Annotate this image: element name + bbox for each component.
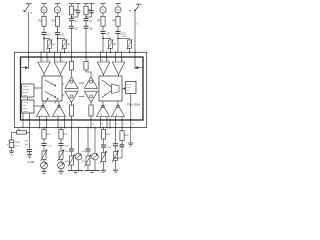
capacitor C4 [69,19,78,23]
svg-text:+: + [57,64,58,66]
op-amp A6 [84,77,97,89]
wire pin-bus x58 [57,120,59,128]
wire M4-bar [94,160,96,171]
switch S1 [22,4,32,15]
wire group1-pin [71,28,73,57]
label C11 [25,141,30,146]
node branch wire 4 [118,39,130,41]
svg-text:8: 8 [72,124,73,126]
wire C9-node [102,33,104,39]
svg-text:3: 3 [30,124,31,126]
svg-text:x: x [51,96,52,98]
resistor R16 [120,128,129,141]
pin bottom x107 [106,119,108,121]
wire switch S2 to rail [134,11,136,53]
svg-text:dc vol: dc vol [127,84,133,86]
pin bottom x130.75 [130,119,132,121]
wire R1-C1 [43,26,45,32]
wire switch S1 to pin 2 [28,12,30,57]
resistor R5 [69,6,77,15]
wire pin-bus x115.5 [115,120,117,128]
svg-text:logic: logic [23,105,27,107]
pin number top 8 [122,60,123,62]
supply bar R6 [83,4,88,6]
ground bus wire [14,127,146,129]
pin 2 arrow marker [21,67,28,69]
svg-text:17: 17 [123,124,125,126]
pin top x54.5 [54,57,56,59]
wire M1-A5 [62,83,65,85]
junction bus x46.5 [46,127,48,129]
wire V1-R1 [43,13,45,17]
capacitor C8 [84,26,93,30]
wire pin-bus x100.5 [100,120,102,128]
wire V4-R9 [117,13,119,17]
stub rail-pin x47 [46,52,47,57]
pin bottom x122 [121,119,123,121]
wire pin-gnd right [130,127,132,143]
wire C19-join [115,147,122,159]
wire C4-C5 [71,21,73,26]
pin number bottom 18 [132,124,134,126]
pin top x41 [40,57,42,59]
wire bus-C17 [115,127,117,144]
part number label [127,103,141,107]
meter M1 [41,160,48,169]
junction rail x71.5 [71,52,72,53]
pin number bottom 4 [40,124,41,126]
capacitor C19 [120,141,125,147]
wire R13-bar [71,165,73,171]
supply bar R5 [69,4,74,6]
wire pin-bus x122 [121,120,123,128]
pin top x121.5 [121,57,123,59]
svg-text:18: 18 [132,124,134,126]
svg-text:x: x [51,84,52,86]
pin bottom x39.5 [39,119,41,121]
wire C10-node [117,33,119,39]
control box B2 [22,100,35,113]
stub rail-pin x121.5 [121,52,122,57]
control box B1 [22,84,35,97]
pin number top 9 [116,60,117,62]
svg-text:TDA 1524: TDA 1524 [127,103,141,107]
junction rail x44 [43,52,44,53]
pot arrow P2 [54,98,58,103]
wire M2 down [60,169,62,172]
wire node-rail V3 [102,39,104,53]
pin bottom x71.5 [71,119,73,121]
capacitor C11 [27,150,32,152]
ground bar G4 [85,171,100,173]
pin bottom x29.5 [29,119,31,121]
wire bus-C11 [29,128,31,150]
pin number bottom 14 [101,124,103,126]
wire B3-pin gnd [130,94,132,121]
resistor R1 [38,16,46,26]
end bar E1 [41,171,46,173]
wire C15-R14 [87,151,89,156]
pin number top 17 [42,60,44,62]
end bar E3 [101,170,106,172]
supply bar V4 [115,4,120,6]
wire R7-C9 [102,26,104,31]
pin number bottom 16 [116,124,118,126]
adjustable resistor R21 [112,146,118,162]
wire node-rail V4 [117,39,119,53]
wire group2-pin [85,28,87,57]
svg-text:bass &: bass & [23,92,30,94]
pin number bottom 17 [123,124,125,126]
junction bus x58 [57,127,59,129]
pin number bottom 15 [108,124,110,126]
ground G2 [9,151,14,154]
node branch wire 3 [103,39,111,41]
rail left drop wire [13,52,15,127]
svg-text:14: 14 [101,124,103,126]
wire C3 join [71,13,78,18]
wire pin-bus x46.5 [46,120,48,128]
svg-text:2: 2 [29,60,30,62]
op-amp A8 [84,91,97,102]
pin top x71.5 [71,57,73,59]
rail wire top [14,51,147,53]
svg-text:5: 5 [47,124,48,126]
pin number top 10 [107,60,109,62]
svg-text:balance: balance [23,89,30,91]
wire A8-M2 [98,94,99,96]
svg-text:volume: volume [23,86,29,88]
capacitor C5 [69,26,78,30]
pin bottom x100.5 [100,119,102,121]
pin number top 12 [87,60,89,62]
switch S2 [129,4,141,25]
wire R4-rail [64,48,66,53]
capacitor C17 [113,144,124,148]
pin number top 2 [29,60,30,62]
svg-text:treble: treble [23,94,28,97]
wire R3-C2 [57,26,59,32]
junction rail x57.5 [57,52,58,53]
capacitor C3 [76,11,81,13]
resistor R13 [65,155,75,167]
junction bus x39.5 [39,127,41,129]
op-amp A10 [53,101,66,120]
wire C11-gnd [29,152,31,155]
wire C2-node [57,34,59,39]
junction bus x107 [106,127,108,129]
ground G1 [27,154,32,157]
junction bus x64.5 [64,127,66,129]
wire C3 top [77,6,79,11]
capacitor C15 [81,149,90,153]
svg-text:40 V: 40 V [15,146,20,148]
wire bus-M3 [78,127,80,154]
capacitor C16 [101,139,112,149]
wire node-rail V2 [57,39,59,53]
svg-text:contr: contr [127,86,132,89]
wire R14-bar [87,165,89,171]
rail right drop wire [146,52,148,127]
wire C14-R13 [71,151,73,156]
op-amp A9 [37,101,50,120]
wire C6 join [85,13,91,18]
wire pin17 into IC [134,52,136,69]
resistor R2 [46,39,55,50]
svg-text:6: 6 [59,124,60,126]
pin bottom x115.5 [115,119,117,121]
pin number top 11 [101,60,103,62]
wire C18-gnd [11,148,13,151]
wire A5-A6 link [79,82,85,84]
source V1 [41,7,47,13]
pin number top 13 [72,60,74,62]
pin number bottom 7 [65,124,66,126]
pin top x106.5 [106,57,108,59]
pin top x28.5 [28,57,30,59]
junction rail x86 [85,52,86,53]
wire A2 out [60,74,62,76]
internal resistor RI3 [69,103,73,121]
supply bar V2 [55,4,60,6]
pin number bottom 8 [72,124,73,126]
svg-text:4: 4 [40,124,41,126]
control box B3 [126,82,137,94]
capacitor C1 [41,32,51,36]
pin 17 arrow marker [135,67,143,69]
op-amp A7 [65,91,78,102]
svg-text:x: x [104,94,105,96]
resistor R14 [81,155,91,167]
wire A3 out [103,75,105,77]
stub rail-pin x106.5 [106,52,107,57]
IC U1 TDA1524 body [21,57,144,120]
resistor R11 [42,128,51,139]
pin number top 16 [48,60,50,62]
svg-text:16: 16 [116,124,118,126]
resistor R8 [107,39,116,50]
wire M1-A7 [62,94,65,96]
resistor R15 [101,127,110,139]
wire pin-bus x71.5 [71,120,73,128]
end bar E4 [113,170,118,172]
wire M3-bar [78,160,80,171]
wire C7-C8 [85,21,87,26]
wire bus-C14 [71,128,73,149]
resistor R12 [59,128,68,139]
op-amp A4 [112,57,124,74]
junction rail x103 [102,52,103,53]
junction rail x118 [117,52,118,53]
wire V3-R7 [102,13,104,17]
svg-text:+: + [101,64,102,66]
node branch wire [44,39,50,41]
wire bus-R17 [27,131,30,133]
wire R2-rail [49,48,51,53]
resistor R17 [17,129,27,134]
supply bar C6 [89,4,94,6]
capacitor C2 [55,32,65,36]
wire pin2 into IC [28,57,30,69]
svg-text:control: control [23,110,29,113]
op-amp A12 [112,101,125,120]
svg-text:(-6 dB): (-6 dB) [27,162,34,164]
pin bottom x58 [57,119,59,121]
wire pin-bus x107 [106,120,108,128]
wire R10-rail [129,48,131,53]
op-amp A1 [38,57,50,74]
pin number top 15 [55,60,57,62]
junction bus x122 [121,127,123,129]
svg-text:12: 12 [92,124,94,126]
op-amp A11 [97,101,110,120]
internal resistor RI2 [84,57,91,76]
wire pin-bus x130.75 [130,120,132,128]
wire pin-bus x91 [90,120,92,128]
resistor R3 [52,16,60,26]
resistor R6 [84,6,92,15]
end bar E2 [58,171,63,173]
wire V2-R3 [57,13,59,17]
node branch wire 2 [58,39,65,41]
resistor R9 [112,16,120,26]
svg-text:x: x [104,84,105,86]
adjustable resistor R20 [100,147,106,163]
wire R8-rail [110,48,112,53]
stub rail-pin x60.5 [60,52,61,57]
label -6dB [27,162,34,164]
pin number bottom 12 [92,124,94,126]
svg-text:47µF: 47µF [15,142,21,144]
wire B1-B2 link [27,97,29,100]
wire node-rail V1 [43,39,45,53]
meter M2 [58,160,65,169]
junction bus x44 [43,127,45,129]
wire R9-C10 [117,26,119,31]
op-amp A3 [97,57,109,74]
pin top x115.5 [115,57,117,59]
pin number bottom 5 [47,124,48,126]
wire R6 down [85,15,87,19]
wire R21 down [115,161,117,171]
pin number bottom 6 [59,124,60,126]
op-amp A5 [65,77,78,89]
pin bottom x91 [90,119,92,121]
capacitor C7 [84,19,93,23]
wire A4 out [118,75,120,77]
svg-text:mode: mode [23,102,28,104]
pot arrow P1 [44,98,48,103]
pin bottom x46.5 [46,119,48,121]
wire B2-pin3 [29,113,31,120]
pin top x100.5 [100,57,102,59]
svg-text:C10: C10 [121,33,126,36]
wire M2 out arrow [122,88,125,90]
wire pin-bus x29.5 [29,120,31,128]
svg-text:+: + [42,64,43,66]
ground bar G3 [68,171,83,173]
junction bus x71.5 [71,127,73,129]
pin number top 14 [61,60,63,62]
wire pin-bus x39.5 [39,120,41,128]
source V3 [100,7,106,13]
capacitor C6 [89,11,94,13]
wire A6-M2 [98,83,99,85]
resistor R7 [97,16,105,26]
ground G10 [128,143,133,146]
pin top x60.5 [60,57,62,59]
resistor R10 [123,36,133,50]
junction rail x28.5 [28,52,29,53]
capacitor C13 [58,139,69,148]
supply bar V1 [41,4,46,6]
wire A7-A8 link [79,96,85,98]
pin top x47 [46,57,48,59]
pin bottom x64.5 [64,119,66,121]
wire C6 top [91,6,93,11]
source V2 [54,7,60,13]
wire bus-C15 [87,127,89,149]
wire B2 out [34,105,42,107]
pin top x86 [85,57,87,59]
junction bus x91 [90,127,92,129]
stub rail-pin x41 [40,52,41,57]
stub rail-pin x115.5 [115,52,116,57]
svg-text:+: + [116,64,117,66]
pin number bottom 3 [30,124,31,126]
wire R20 down [103,162,105,171]
source V4 [115,7,121,13]
meter M4 [92,153,99,160]
matrix box M2 [99,76,122,101]
internal resistor RI1 [69,57,73,76]
meter M3 [75,153,82,160]
wire bus-M4 [94,127,96,154]
wire B2-pin4 [22,113,24,128]
svg-text:7: 7 [65,124,66,126]
wire R5 down [71,15,73,19]
wire M1 down [43,169,45,172]
wire pin-bus x110 [109,119,111,128]
junction bus x100.5 [100,127,102,129]
svg-text:switch: switch [23,107,28,110]
wire B1-M1 [34,87,42,89]
resistor R4 [61,39,70,50]
adjustable resistor R19 [58,146,64,162]
supply bar C3 [75,4,80,6]
capacitor C18 electrolytic [6,140,20,148]
capacitor C9 [100,31,110,35]
wire C1-node [43,34,45,39]
junction bus x61 [60,127,62,129]
svg-text:unit: unit [127,89,131,92]
internal resistor RI4 [89,103,93,121]
matrix box M1 [42,76,62,101]
capacitor C10 [115,31,126,35]
stub rail-pin x100.5 [100,52,101,57]
wire R17-C18 [12,132,17,140]
supply bar V3 [100,4,105,6]
wire pin-bus x64.5 [64,120,66,128]
adjustable resistor R18 [41,146,47,162]
junction bus x110 [109,127,111,129]
wire A1 out [43,74,45,76]
capacitor C12 [41,139,52,148]
capacitor C14 [65,149,74,153]
svg-text:15: 15 [108,124,110,126]
stub rail-pin x54.5 [54,52,55,57]
op-amp A2 [54,57,66,74]
